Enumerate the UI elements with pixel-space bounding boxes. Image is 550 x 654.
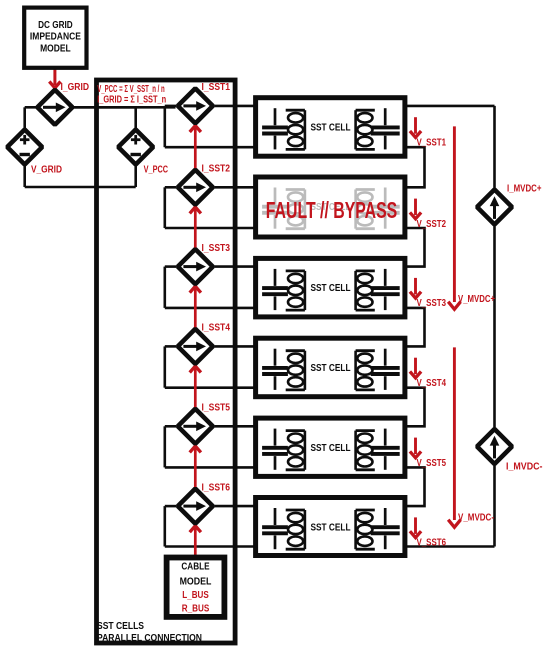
svg-text:I_SST3: I_SST3 <box>202 243 231 254</box>
svg-text:V_PCC = Σ V_SST_n / n: V_PCC = Σ V_SST_n / n <box>97 84 165 95</box>
svg-text:CABLE: CABLE <box>181 561 209 572</box>
svg-text:I_SST2: I_SST2 <box>202 164 231 175</box>
svg-text:SST CELL: SST CELL <box>311 123 351 134</box>
svg-text:PARALLEL CONNECTION: PARALLEL CONNECTION <box>97 633 202 644</box>
svg-text:L_BUS: L_BUS <box>182 590 208 601</box>
svg-text:FAULT // BYPASS: FAULT // BYPASS <box>266 197 398 223</box>
svg-text:I_GRID = Σ I_SST_n: I_GRID = Σ I_SST_n <box>97 94 166 105</box>
svg-text:V_MVDC-: V_MVDC- <box>458 513 494 524</box>
svg-text:I_MVDC+: I_MVDC+ <box>507 183 542 194</box>
svg-text:V_SST5: V_SST5 <box>417 458 447 469</box>
svg-text:V_SST1: V_SST1 <box>417 137 447 148</box>
svg-text:I_GRID: I_GRID <box>61 82 90 93</box>
svg-text:I_SST4: I_SST4 <box>202 323 231 334</box>
svg-text:IMPEDANCE: IMPEDANCE <box>30 32 81 43</box>
svg-text:V_SST6: V_SST6 <box>417 538 447 549</box>
svg-text:V_SST3: V_SST3 <box>417 298 447 309</box>
svg-text:SST CELLS: SST CELLS <box>97 621 144 632</box>
svg-text:DC GRID: DC GRID <box>38 20 73 31</box>
svg-text:I_SST6: I_SST6 <box>202 482 231 493</box>
svg-text:I_SST1: I_SST1 <box>202 82 231 93</box>
svg-text:MODEL: MODEL <box>40 44 71 55</box>
svg-text:SST CELL: SST CELL <box>311 522 351 533</box>
svg-text:V_SST4: V_SST4 <box>417 378 447 389</box>
svg-text:V_GRID: V_GRID <box>31 165 62 176</box>
svg-text:I_MVDC-: I_MVDC- <box>506 462 543 473</box>
svg-text:SST CELL: SST CELL <box>311 443 351 454</box>
svg-text:I_SST5: I_SST5 <box>202 403 231 414</box>
svg-text:SST CELL: SST CELL <box>311 283 351 294</box>
svg-text:V_PCC: V_PCC <box>144 165 169 176</box>
svg-text:V_MVDC+: V_MVDC+ <box>458 294 495 305</box>
svg-text:R_BUS: R_BUS <box>182 604 210 615</box>
svg-text:MODEL: MODEL <box>180 576 212 587</box>
svg-text:V_SST2: V_SST2 <box>417 219 447 230</box>
svg-text:SST CELL: SST CELL <box>311 363 351 374</box>
